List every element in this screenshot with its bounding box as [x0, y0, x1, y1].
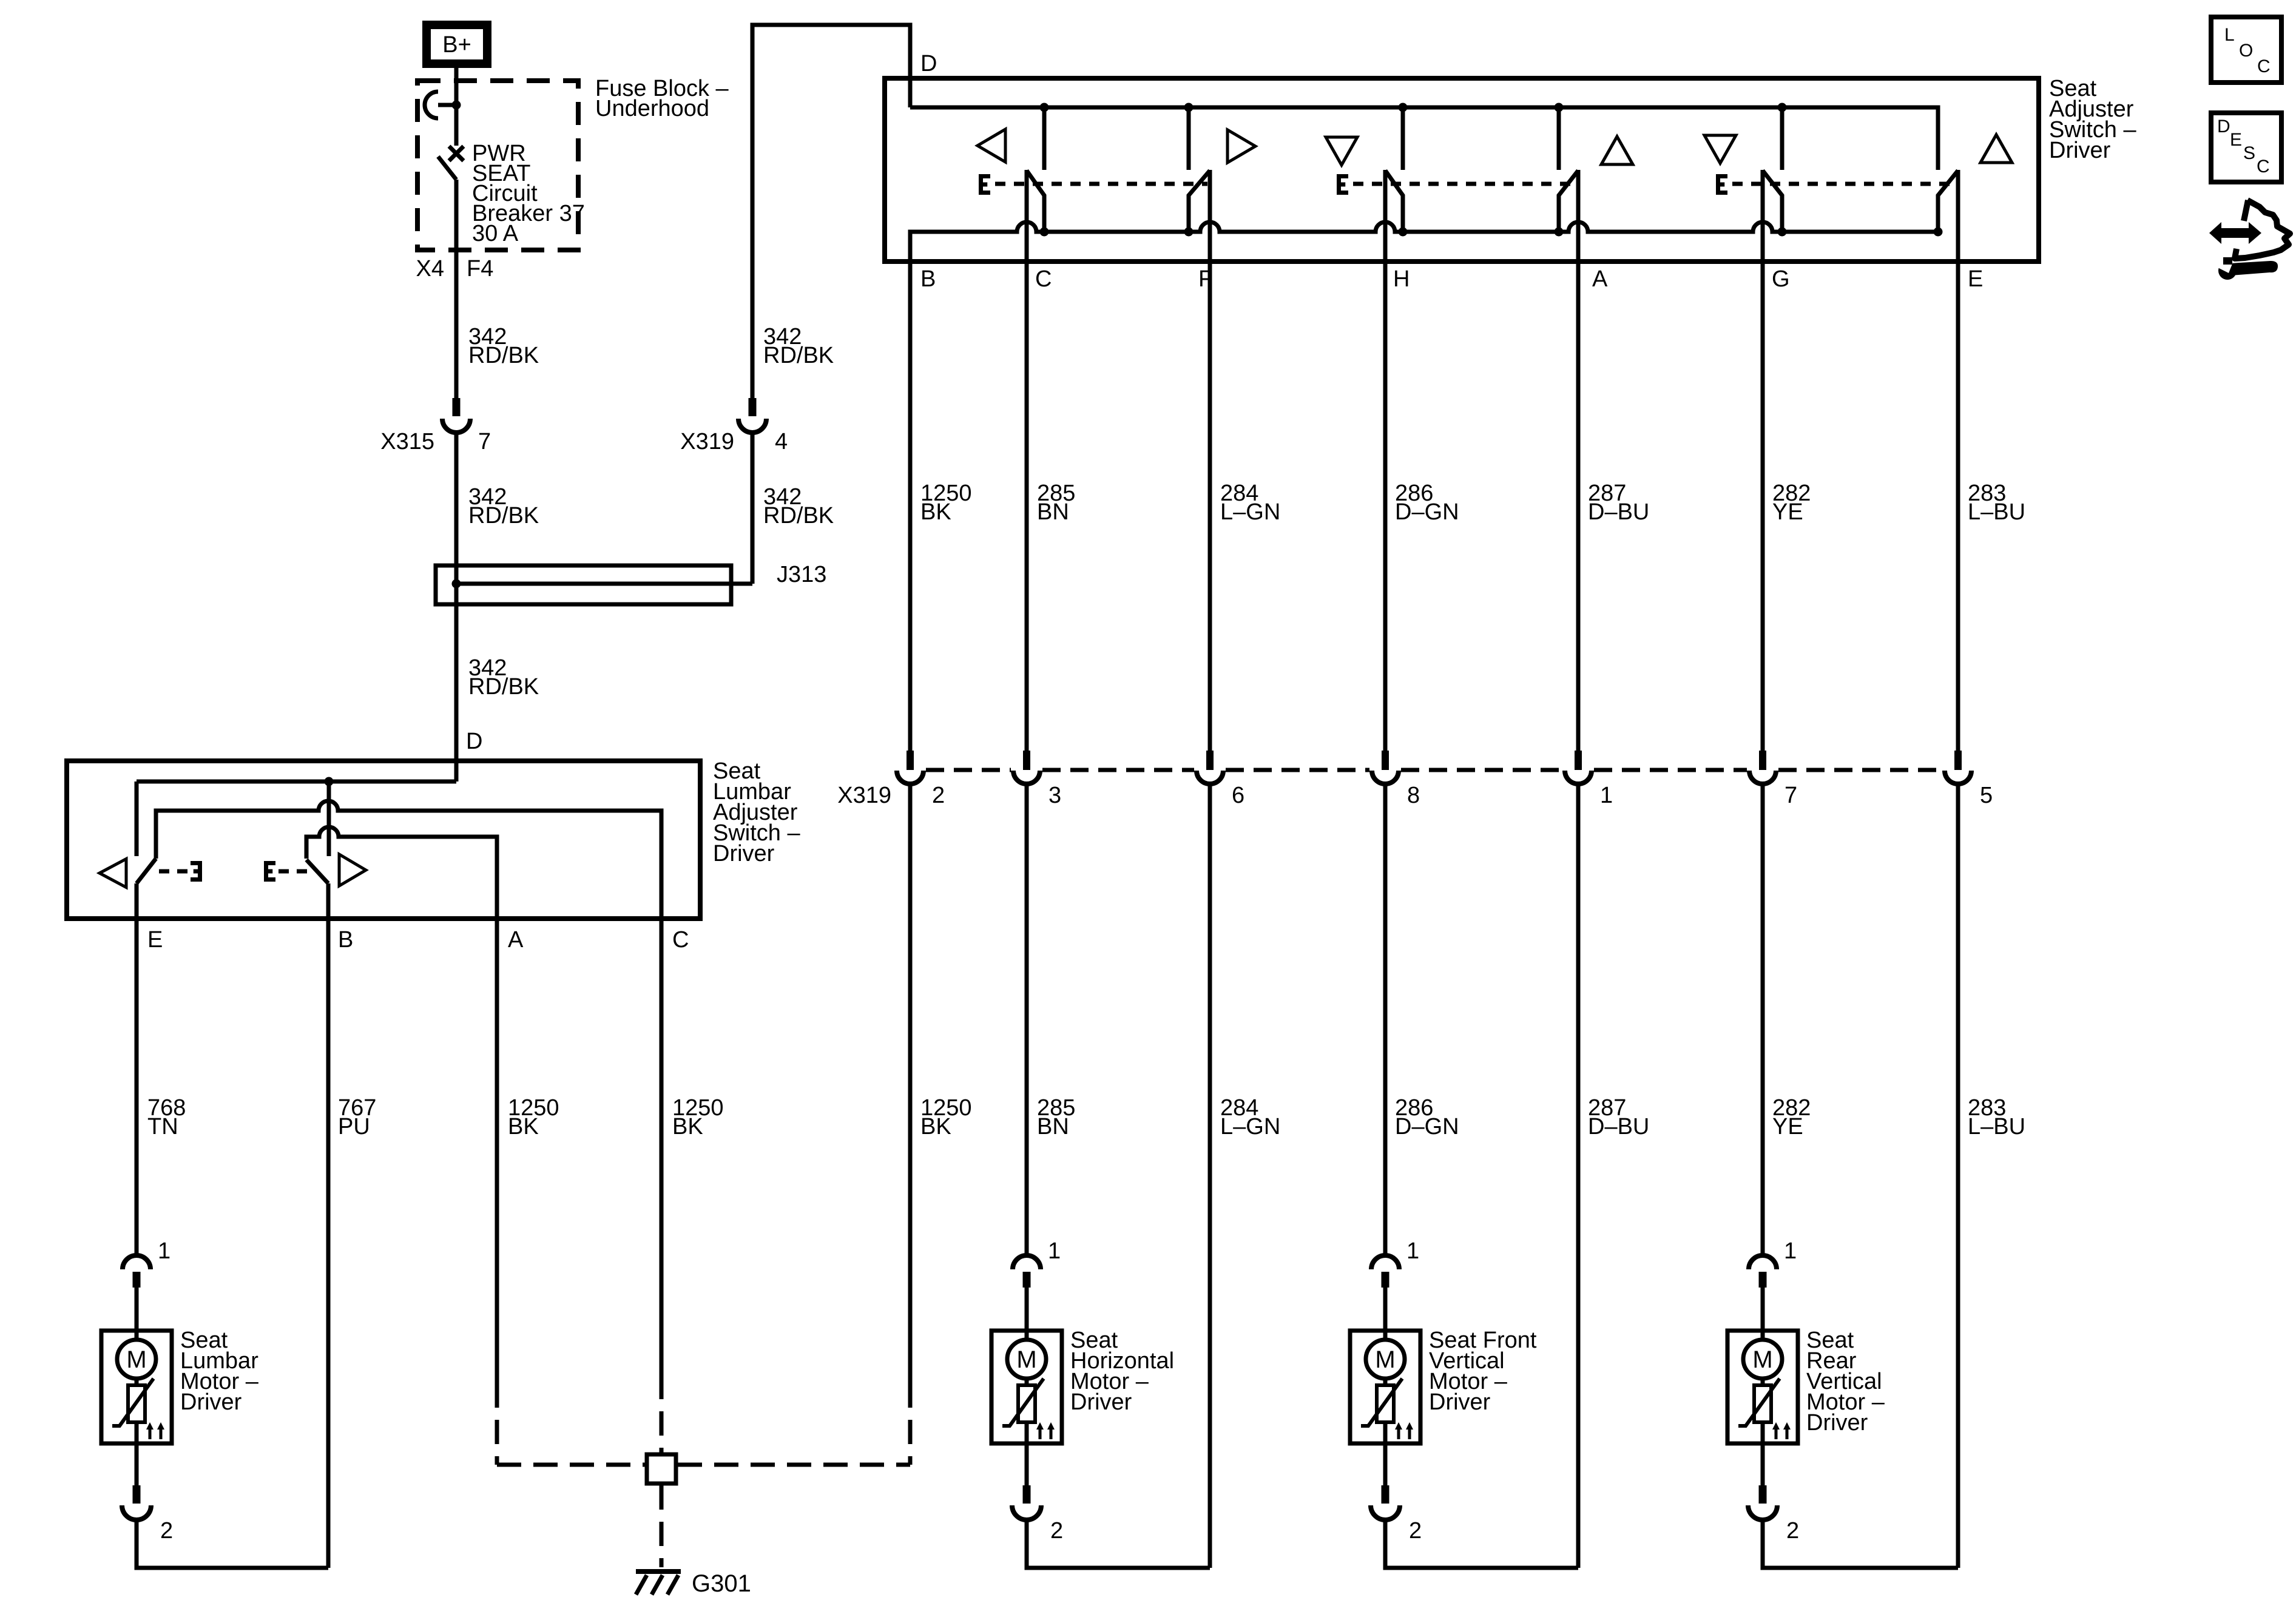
wire pin G to connector X319: [1761, 262, 1765, 751]
direction arrows: [1395, 1422, 1413, 1439]
switch A (front up): fixed contact stub: [1555, 103, 1564, 170]
legend LOC box: [2211, 17, 2281, 83]
motor M symbol: [117, 1340, 156, 1379]
mechanical link SW1 (dashes + reversed E): [159, 861, 202, 882]
switch H (front down): pin wire inside box: [1383, 170, 1388, 262]
lumbar switch SW1 fixed stub (from feed): [135, 781, 139, 856]
svg-text:BK: BK: [508, 1114, 539, 1139]
svg-text:Driver: Driver: [1070, 1389, 1132, 1415]
mechanical link pair 3 (E + dashes): [1716, 174, 1956, 195]
svg-text:E: E: [2230, 130, 2242, 150]
lumbar switch SW1 pin E wire inside box: [135, 883, 139, 919]
mechanical link pair 1 (E + dashes): [979, 174, 1207, 195]
connector X319 pin 5 (wire E): [1945, 751, 1993, 808]
labels adjuster switch pins B C F H A G E: [920, 266, 1983, 292]
connector X319 pin 3 (wire C): [1013, 751, 1061, 808]
svg-text:1: 1: [1600, 783, 1613, 808]
svg-text:Driver: Driver: [1429, 1389, 1491, 1415]
upper wire labels (circuit / color): [920, 481, 2025, 525]
svg-text:Driver: Driver: [180, 1389, 242, 1415]
legend DESC box: [2211, 113, 2281, 182]
label PWR SEAT Circuit Breaker 37 30 A: [472, 141, 585, 246]
switch F (seat forward): movable lever: [1184, 170, 1210, 237]
wire motor to thermal protector: [1025, 1379, 1029, 1389]
wire 768 TN (lumbar E to motor): [135, 919, 139, 1255]
svg-text:M: M: [1752, 1346, 1772, 1373]
motor M symbol: [1366, 1340, 1405, 1379]
svg-text:PU: PU: [338, 1114, 370, 1139]
svg-text:30 A: 30 A: [472, 221, 519, 246]
motor pin 2 connector at x=2283: [1371, 1485, 1422, 1544]
lumbar switch SW1 lever: [137, 859, 156, 883]
triangle arrow up (front up): [1601, 137, 1633, 164]
svg-text:J313: J313: [777, 562, 826, 587]
svg-text:E: E: [1968, 266, 1983, 292]
wire splice to right 1250 BK riser: [678, 1463, 910, 1467]
wire thermal to pin 2: [135, 1422, 139, 1485]
svg-text:A: A: [1592, 266, 1608, 292]
return bus to pin B (bottom bus with hops): [910, 222, 1938, 262]
lumbar line to pin C (hop over stub): [156, 801, 661, 919]
svg-text:Driver: Driver: [1806, 1410, 1868, 1436]
svg-text:F4: F4: [467, 256, 493, 282]
wire label 342 RD/BK (F4 to X315): [468, 324, 539, 368]
wire lumbar motor pin2 to return rail: [137, 1520, 328, 1568]
motor name label: [1429, 1328, 1537, 1415]
motor assembly box: [991, 1331, 1062, 1443]
svg-text:1: 1: [1784, 1238, 1797, 1264]
svg-text:X315: X315: [380, 429, 434, 454]
labels X4 F4: [416, 256, 494, 282]
fuse block - underhood (dashed box): [417, 81, 578, 250]
switch C (seat rearward): pin wire inside box: [1025, 170, 1029, 262]
thermal protector (PTC): [1361, 1379, 1402, 1426]
feed bus from D (top bus): [910, 107, 1938, 170]
svg-text:D–BU: D–BU: [1588, 499, 1649, 525]
svg-text:X319: X319: [837, 783, 891, 808]
svg-text:C: C: [2257, 56, 2271, 76]
connector X319 pin 4: [680, 398, 788, 454]
svg-text:C: C: [672, 927, 689, 953]
svg-text:X4: X4: [416, 256, 444, 282]
svg-text:BK: BK: [920, 499, 951, 525]
lumbar switch SW2 pin B wire inside box: [326, 883, 331, 919]
motor pin 1 connector at x=2283: [1371, 1238, 1419, 1288]
connector X319 pin 1 (wire A): [1565, 751, 1613, 808]
switch C (seat rearward): movable lever: [1027, 170, 1049, 237]
splice pack J313: [436, 562, 826, 604]
wire thermal to pin 2: [1383, 1422, 1388, 1485]
svg-text:D–GN: D–GN: [1395, 1114, 1459, 1139]
wire 287 D-BU (A return): [1576, 784, 1581, 1568]
svg-text:D–BU: D–BU: [1588, 1114, 1649, 1139]
switch E (rear up): movable lever: [1934, 170, 1959, 237]
svg-text:S: S: [2243, 143, 2255, 163]
svg-text:3: 3: [1048, 783, 1061, 808]
svg-text:L–GN: L–GN: [1220, 499, 1280, 525]
wire front vertical motor pin2 to return rail (287 D-BU): [1385, 1520, 1578, 1568]
lower wire labels (circuit / color): [920, 1095, 2025, 1139]
labels lumbar pins E B A C: [147, 927, 689, 953]
svg-text:2: 2: [1409, 1518, 1422, 1544]
lumbar feed line from D: [137, 777, 456, 786]
svg-text:D: D: [466, 729, 482, 754]
svg-text:2: 2: [1786, 1518, 1799, 1544]
svg-text:YE: YE: [1772, 499, 1803, 525]
wire label 342 RD/BK (branch lower): [763, 484, 834, 528]
wire horizontal motor pin2 to return rail (284 L-GN): [1027, 1520, 1210, 1568]
svg-text:TN: TN: [147, 1114, 178, 1139]
switch H (front down): movable lever: [1385, 170, 1408, 237]
wire B+ to fuse block: [454, 68, 459, 107]
svg-text:L–BU: L–BU: [1968, 499, 2025, 525]
wire X319 to J313: [751, 433, 755, 584]
lumbar line to pin A (hop over stub): [306, 827, 497, 919]
label Fuse Block - Underhood: [595, 76, 729, 121]
motor assembly box: [1350, 1331, 1420, 1443]
svg-text:M: M: [1375, 1346, 1395, 1373]
motor M symbol: [1743, 1340, 1782, 1379]
connector X319 pin 2 (wire B): [897, 751, 945, 808]
thermal protector (PTC): [112, 1379, 154, 1426]
svg-text:G301: G301: [692, 1570, 751, 1597]
svg-text:D–GN: D–GN: [1395, 499, 1459, 525]
svg-text:BK: BK: [920, 1114, 951, 1139]
svg-text:B: B: [338, 927, 353, 953]
motor M4: seat rear vertical motor - driver: [1727, 1238, 1885, 1544]
svg-text:RD/BK: RD/BK: [468, 503, 539, 528]
switch F (seat forward): pin wire inside box: [1208, 170, 1212, 262]
triangle arrow right (lumbar): [339, 854, 366, 886]
connector row X319 (dashed): [837, 770, 1942, 808]
wire 1250 BK (B to ground splice): [908, 784, 913, 1465]
label Seat Lumbar Adjuster Switch - Driver: [713, 758, 800, 866]
svg-text:1: 1: [1406, 1238, 1419, 1264]
wire connector to motor: [1383, 1288, 1388, 1340]
switch G (rear down): movable lever: [1763, 170, 1787, 237]
connector X315 pin 7: [380, 398, 491, 454]
wire label 768 TN: [147, 1095, 186, 1139]
wire splice to ground: [660, 1485, 664, 1567]
triangle arrow left (seat rearward): [977, 129, 1005, 162]
svg-text:X319: X319: [680, 429, 734, 454]
wire 286 D-GN (H to front vertical motor): [1383, 784, 1388, 1255]
switch A (front up): movable lever: [1555, 170, 1579, 237]
wire motor to thermal protector: [135, 1379, 139, 1389]
svg-text:M: M: [1016, 1346, 1036, 1373]
svg-text:BK: BK: [672, 1114, 703, 1139]
motor name label: [1806, 1328, 1885, 1436]
triangle arrow up (rear up): [1980, 135, 2012, 163]
motor M1: seat lumbar motor - driver: [101, 1238, 259, 1544]
wire rear vertical motor pin2 to return rail (283 L-BU): [1763, 1520, 1958, 1568]
wire pin A to connector X319: [1576, 262, 1581, 751]
direction arrows: [1772, 1422, 1791, 1439]
motor name label: [1070, 1328, 1174, 1415]
switch G (rear down): fixed contact stub: [1778, 103, 1787, 170]
svg-text:8: 8: [1407, 783, 1420, 808]
svg-text:L: L: [2224, 25, 2235, 45]
wire pin B to connector X319: [908, 262, 913, 751]
motor pin 1 connector at x=225: [123, 1238, 171, 1288]
label Seat Adjuster Switch - Driver: [2049, 76, 2136, 163]
wire X315 to J313: [454, 433, 459, 584]
svg-text:L–GN: L–GN: [1220, 1114, 1280, 1139]
wire 284 L-GN (F return): [1208, 784, 1212, 1568]
motor pin 1 connector at x=2905: [1749, 1238, 1797, 1288]
wire 1250 BK (lumbar C to splice): [660, 919, 664, 1453]
wire label 342 RD/BK (branch upper): [763, 324, 834, 368]
triangle arrow down (rear down): [1704, 135, 1736, 163]
wire label 1250 BK (A): [508, 1095, 559, 1139]
wire 767 PU (lumbar B to motor return): [326, 919, 331, 1568]
svg-text:Driver: Driver: [713, 841, 775, 866]
svg-text:RD/BK: RD/BK: [468, 343, 539, 368]
wire thermal to pin 2: [1025, 1422, 1029, 1485]
switch E: pin wire inside box: [1956, 170, 1960, 262]
svg-text:G: G: [1772, 266, 1790, 292]
svg-text:2: 2: [160, 1518, 173, 1544]
wire label 767 PU: [338, 1095, 376, 1139]
legend vehicle adjustment icon (arrow, car, wrench): [2209, 200, 2290, 280]
motor pin 1 connector at x=1692: [1013, 1238, 1061, 1288]
switch C (seat rearward): fixed contact stub: [1040, 103, 1049, 170]
power symbol B+: [427, 25, 487, 64]
svg-text:Driver: Driver: [2049, 138, 2111, 163]
svg-text:1: 1: [1048, 1238, 1061, 1264]
wire 282 YE (G to rear vertical motor): [1761, 784, 1765, 1255]
wire connector to motor: [1761, 1288, 1765, 1340]
svg-text:L–BU: L–BU: [1968, 1114, 2025, 1139]
wire pin F to connector X319: [1208, 262, 1212, 751]
svg-text:1: 1: [158, 1238, 171, 1264]
svg-text:O: O: [2239, 41, 2253, 61]
direction arrows: [1036, 1422, 1055, 1439]
triangle arrow right (seat forward): [1227, 130, 1255, 163]
wire connector to motor: [135, 1288, 139, 1340]
motor M3: seat front vertical motor - driver: [1350, 1238, 1537, 1544]
svg-text:D: D: [920, 51, 937, 76]
wire J313 to seat lumbar switch pin D: [454, 584, 459, 781]
svg-text:7: 7: [478, 429, 491, 454]
svg-text:D: D: [2217, 116, 2230, 137]
svg-text:C: C: [2257, 157, 2270, 177]
triangle arrow left (lumbar): [100, 859, 126, 888]
svg-text:RD/BK: RD/BK: [763, 343, 834, 368]
motor M2: seat horizontal motor - driver: [991, 1238, 1174, 1544]
lumbar switch SW2 lever: [306, 860, 328, 883]
motor pin 2 connector at x=1692: [1012, 1485, 1063, 1544]
seat lumbar adjuster switch - driver (box): [67, 761, 700, 919]
wire breaker to fuse block output: [454, 180, 459, 398]
svg-text:BN: BN: [1037, 1114, 1069, 1139]
svg-text:B+: B+: [442, 32, 471, 58]
motor assembly box: [101, 1331, 172, 1443]
motor assembly box: [1727, 1331, 1798, 1443]
svg-text:2: 2: [932, 783, 945, 808]
motor M symbol: [1007, 1340, 1046, 1379]
motor pin 2 connector at x=2905: [1748, 1485, 1799, 1544]
circuit breaker 37 (PWR SEAT 30 A): [425, 92, 464, 180]
svg-text:RD/BK: RD/BK: [763, 503, 834, 528]
svg-text:Underhood: Underhood: [595, 96, 709, 121]
wire label 342 RD/BK (X315 to J313): [468, 484, 539, 528]
motor name label: [180, 1328, 259, 1415]
seat adjuster switch - driver (box): [885, 78, 2039, 262]
connector X319 pin 6 (wire F): [1197, 751, 1244, 808]
connector X319 pin 7 (wire G): [1749, 751, 1797, 808]
wire pin H to connector X319: [1383, 262, 1388, 751]
wire 1250 BK (lumbar A to splice): [497, 919, 645, 1465]
wire motor to thermal protector: [1761, 1379, 1765, 1389]
wire feed branch to X319 (top rail): [752, 25, 910, 398]
svg-text:7: 7: [1784, 783, 1797, 808]
wire connector to motor: [1025, 1288, 1029, 1340]
svg-text:5: 5: [1980, 783, 1993, 808]
switch H (front down): fixed contact stub: [1399, 103, 1408, 170]
wire pin E to connector X319: [1956, 262, 1960, 751]
motor pin 2 connector at x=225: [122, 1485, 173, 1544]
svg-text:RD/BK: RD/BK: [468, 674, 539, 700]
svg-text:A: A: [508, 927, 524, 953]
switch F (seat forward): fixed contact stub: [1184, 103, 1194, 170]
svg-text:YE: YE: [1772, 1114, 1803, 1139]
svg-text:4: 4: [775, 429, 788, 454]
triangle arrow down (front down): [1326, 137, 1357, 165]
ground splice (in-harness): [647, 1454, 676, 1484]
svg-text:M: M: [126, 1346, 146, 1373]
switch G (rear down): pin wire inside box: [1761, 170, 1765, 262]
ground G301: [636, 1570, 751, 1597]
wire thermal to pin 2: [1761, 1422, 1765, 1485]
svg-text:E: E: [147, 927, 163, 953]
lumbar switch SW2 fixed stub (from feed, with hops): [327, 781, 331, 856]
svg-text:2: 2: [1050, 1518, 1063, 1544]
svg-text:H: H: [1393, 266, 1410, 292]
connector X319 pin 8 (wire H): [1372, 751, 1420, 808]
mechanical link SW2 (E + dashes): [264, 861, 315, 882]
wire pin C to connector X319: [1025, 262, 1029, 751]
svg-text:B: B: [920, 266, 936, 292]
wire 285 BN (C to horizontal motor): [1025, 784, 1029, 1255]
wire label 342 RD/BK (J313 to lumbar switch): [468, 655, 539, 700]
thermal protector (PTC): [1002, 1379, 1044, 1426]
mechanical link pair 2 (E + dashes): [1337, 174, 1578, 195]
wire label 1250 BK (C): [672, 1095, 724, 1139]
direction arrows: [146, 1422, 164, 1439]
svg-text:C: C: [1035, 266, 1052, 292]
wire 283 L-BU (E return): [1956, 784, 1960, 1568]
switch A (front up): pin wire inside box: [1576, 170, 1581, 262]
thermal protector (PTC): [1738, 1379, 1780, 1426]
svg-text:BN: BN: [1037, 499, 1069, 525]
wire motor to thermal protector: [1383, 1379, 1388, 1389]
svg-text:6: 6: [1232, 783, 1244, 808]
